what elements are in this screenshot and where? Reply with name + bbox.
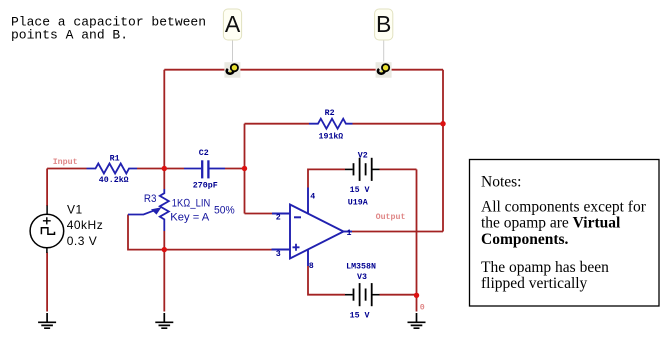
- svg-text:50%: 50%: [214, 205, 235, 217]
- svg-text:2: 2: [276, 213, 281, 222]
- wiper arrow of R3: [151, 207, 162, 214]
- svg-text:40kHz: 40kHz: [67, 218, 104, 232]
- svg-text:8: 8: [309, 262, 314, 271]
- wire top AB: [164, 69, 443, 71]
- svg-text:191kΩ: 191kΩ: [319, 132, 344, 142]
- svg-text:40.2kΩ: 40.2kΩ: [99, 175, 129, 185]
- junction input node: [162, 166, 167, 171]
- svg-text:A: A: [225, 11, 241, 37]
- svg-text:15 V: 15 V: [350, 186, 370, 195]
- wire output: [352, 231, 443, 233]
- ground (rail): [408, 313, 426, 328]
- resistor R2: [309, 119, 353, 129]
- svg-text:4: 4: [310, 193, 315, 202]
- svg-text:B: B: [376, 11, 391, 37]
- svg-text:All components except for: All components except for: [481, 199, 647, 216]
- svg-text:R2: R2: [325, 109, 335, 118]
- svg-text:270pF: 270pF: [193, 182, 218, 191]
- wire R2 row right: [353, 123, 444, 125]
- potentiometer R3: [128, 189, 169, 231]
- capacitor C2: [184, 160, 225, 178]
- wire R3 bottom to ground: [163, 231, 165, 312]
- wire V3 right to rail: [380, 294, 417, 296]
- svg-text:C2: C2: [199, 149, 209, 158]
- node A: [223, 9, 241, 78]
- wire R2 row left: [245, 123, 310, 125]
- svg-text:Notes:: Notes:: [481, 174, 521, 191]
- wire V1 bottom: [46, 253, 48, 312]
- wire opamp pin4 to V2: [308, 169, 345, 187]
- svg-text:0.3 V: 0.3 V: [67, 234, 98, 248]
- svg-text:1: 1: [347, 229, 352, 238]
- wire R1 to node: [137, 168, 184, 170]
- battery V3: [345, 283, 380, 306]
- svg-text:15 V: 15 V: [350, 311, 370, 320]
- svg-text:flipped vertically: flipped vertically: [481, 275, 588, 292]
- node B: [375, 9, 393, 78]
- svg-text:V3: V3: [357, 273, 367, 282]
- wire C2 to node: [225, 168, 245, 170]
- wire input to R1: [47, 168, 86, 170]
- title text: [11, 14, 206, 42]
- source V1: [30, 206, 64, 254]
- svg-text:the opamp are Virtual: the opamp are Virtual: [481, 215, 621, 232]
- wire V1 top: [46, 169, 48, 207]
- resistor R1: [87, 164, 138, 174]
- svg-text:0: 0: [420, 304, 425, 313]
- svg-text:1KΩ_LIN: 1KΩ_LIN: [172, 197, 210, 209]
- svg-text:points A and B.: points A and B.: [11, 27, 128, 42]
- svg-text:LM358N: LM358N: [346, 263, 376, 272]
- junction C2 right node: [242, 166, 247, 171]
- wire mid rail vertical: [416, 169, 418, 295]
- svg-text:U19A: U19A: [348, 198, 368, 207]
- wire wiper return: [128, 215, 272, 250]
- svg-text:Input: Input: [53, 158, 78, 167]
- svg-text:3: 3: [276, 250, 281, 259]
- junction R3 bottom: [162, 247, 167, 252]
- svg-text:The opamp has been: The opamp has been: [481, 259, 609, 276]
- junction rail V3: [414, 293, 419, 298]
- wire opamp pin8 to V3: [308, 266, 345, 295]
- battery V2: [345, 158, 380, 181]
- op-amp U19A: [272, 188, 353, 267]
- svg-text:V1: V1: [67, 202, 83, 216]
- svg-text:Components.: Components.: [481, 231, 569, 248]
- wire rail to ground: [416, 295, 418, 311]
- svg-text:R3: R3: [144, 193, 157, 205]
- svg-text:R1: R1: [110, 154, 120, 163]
- ground (V1): [38, 313, 56, 328]
- wire V2 right to rail: [380, 168, 417, 170]
- notes box: [470, 160, 660, 307]
- svg-text:V2: V2: [358, 151, 368, 160]
- wire R2 left branch: [244, 124, 246, 214]
- wire minus input: [245, 213, 273, 215]
- ground (R3): [155, 313, 173, 328]
- svg-text:Key = A: Key = A: [170, 211, 210, 223]
- wire node to R3: [163, 169, 165, 190]
- wire right vertical feedback: [442, 70, 444, 232]
- junction R2 right: [440, 121, 445, 126]
- wire left vertical: [163, 70, 165, 169]
- svg-text:Output: Output: [376, 213, 406, 222]
